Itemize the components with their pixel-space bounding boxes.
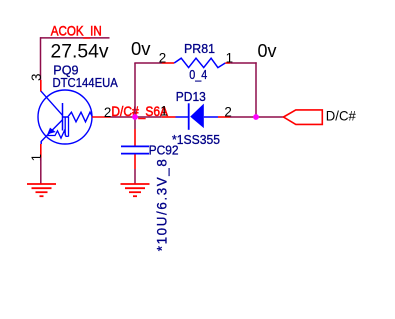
pin number 1 (rotated)	[29, 154, 44, 161]
junction node A (magenta dot)	[132, 114, 138, 120]
pin number 2 (resistor left)	[159, 50, 166, 65]
transistor emitter line with arrow	[41, 120, 62, 144]
transistor pin 2 (base pin, red)	[92, 116, 111, 118]
svg-text:PD13: PD13	[176, 89, 206, 104]
capacitor PC92 reference label	[149, 143, 179, 158]
net label D/C#_S6A	[111, 103, 168, 119]
pin number 3 (rotated)	[29, 74, 44, 81]
diode value *1SS355	[172, 132, 220, 147]
pin number 1 (resistor right)	[226, 50, 233, 65]
transistor Q1 body circle	[38, 90, 92, 144]
capacitor value *10U/6.3V_8 (rotated)	[154, 159, 169, 251]
voltage annotation 0v (right)	[258, 41, 277, 61]
diode PD13 pin 1 (red)	[162, 116, 176, 118]
wire junction A up to resistor row	[134, 63, 136, 117]
svg-text:0v: 0v	[258, 41, 277, 61]
svg-text:2: 2	[104, 105, 111, 120]
diode PD13 body (cathode bar and filled triangle)	[176, 103, 219, 130]
wire ACOK_IN horizontal stub	[40, 37, 110, 39]
wire right column down to junction B	[255, 62, 257, 117]
voltage annotation 27.54v	[51, 41, 110, 62]
pin number 2 (diode right)	[224, 104, 231, 119]
svg-text:*10U/6.3V_8: *10U/6.3V_8	[154, 159, 169, 251]
svg-text:0_4: 0_4	[189, 67, 207, 82]
diode PD13 pin 2 (red)	[218, 116, 230, 118]
transistor PQ9 reference label	[53, 62, 78, 77]
transistor internal resistor R2 (vertical box and zigzag)	[48, 117, 69, 138]
wire diode to junction B	[230, 116, 256, 118]
wire vertical to transistor collector	[40, 37, 42, 80]
svg-text:27.54v: 27.54v	[51, 41, 110, 62]
capacitor PC92 pin 1 (red)	[134, 129, 136, 146]
svg-text:*1SS355: *1SS355	[172, 132, 220, 147]
svg-text:1: 1	[160, 103, 167, 118]
resistor PR81 pin 1 (red)	[225, 62, 230, 64]
transistor internal resistor R1 zigzag to base	[63, 112, 93, 122]
pin number 1 (diode left)	[160, 103, 167, 118]
capacitor PC92 pin 2 (red)	[134, 154, 136, 169]
svg-text:PC92: PC92	[149, 143, 179, 158]
resistor value 0_4	[189, 67, 207, 82]
wire junction A down to capacitor	[134, 117, 136, 129]
resistor PR81 pin 2 (red)	[162, 62, 174, 64]
ground (center, under capacitor)	[121, 184, 150, 196]
svg-text:2: 2	[159, 50, 166, 65]
ground (left, under transistor)	[27, 184, 56, 196]
transistor base bar	[62, 103, 64, 131]
transistor emitter pin 1 (red)	[40, 144, 42, 158]
voltage annotation 0v (left)	[131, 39, 151, 59]
net label ACOK_IN	[51, 22, 102, 38]
svg-text:PR81: PR81	[184, 41, 215, 56]
wire transistor base to junction A	[111, 116, 136, 118]
wire resistor row left	[134, 62, 162, 64]
transistor value DTC144EUA	[53, 75, 118, 90]
svg-text:DTC144EUA: DTC144EUA	[53, 75, 118, 90]
wire capacitor to ground	[134, 169, 136, 184]
transistor PQ9 pin 3 (collector pin, red)	[40, 80, 42, 92]
wire resistor row right	[230, 62, 257, 64]
svg-text:0v: 0v	[131, 39, 151, 59]
transistor collector line	[41, 91, 63, 115]
svg-text:ACOK_IN: ACOK_IN	[51, 22, 102, 38]
svg-text:3: 3	[29, 74, 44, 81]
wire emitter to ground	[40, 158, 42, 184]
capacitor PC92 plates	[121, 146, 149, 153]
pin number 2 (transistor)	[104, 105, 111, 120]
off-page connector label D/C#	[326, 108, 356, 124]
svg-text:1: 1	[29, 154, 44, 161]
wire junction B to off-page connector	[256, 116, 284, 118]
off-page connector D/C# shape	[284, 110, 323, 125]
wire junction A to diode	[135, 116, 162, 118]
junction node B (magenta dot)	[253, 114, 259, 120]
resistor PR81 reference label	[184, 41, 215, 56]
diode PD13 reference label	[176, 89, 206, 104]
svg-text:D/C#: D/C#	[326, 108, 356, 124]
resistor PR81 zigzag body	[174, 58, 225, 67]
